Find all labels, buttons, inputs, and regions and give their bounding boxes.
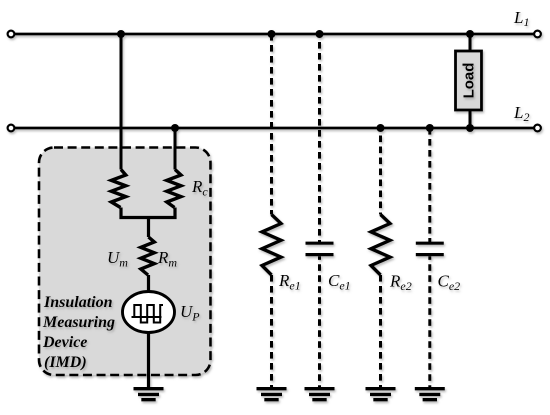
capacitor Ce1 (306, 243, 334, 254)
svg-text:Measuring: Measuring (42, 314, 115, 331)
junction node on L1 at Re1 (268, 30, 276, 38)
ground symbol of Ce1 (305, 389, 335, 400)
wire joining Rc pair bottoms (121, 208, 175, 218)
wire from Load to L2 (469, 110, 472, 128)
wire from L2 down to IMD right resistor (174, 128, 177, 170)
coupling resistor left of Rc pair (111, 170, 126, 208)
resistor Re2 (371, 215, 390, 276)
resistor Rm (141, 237, 155, 275)
pulse source UP circle (123, 292, 175, 333)
dashed wire from L1 to Ce1 (318, 34, 321, 243)
ground symbol of Re1 (257, 389, 287, 400)
terminal L2 right (534, 125, 541, 132)
svg-text:Device: Device (42, 334, 87, 351)
dashed wire from Ce1 to ground (318, 256, 321, 387)
ground symbol of Re2 (366, 389, 396, 400)
junction node on L2 at IMD tap (171, 124, 179, 132)
junction node on L2 at Load (466, 124, 474, 132)
resistor Re1 (262, 215, 281, 276)
dashed wire from L2 to Ce2 (428, 128, 431, 243)
junction node on L1 at IMD tap (117, 30, 125, 38)
dashed wire from L1 to Re1 (270, 34, 273, 215)
junction node on L1 at Load (466, 30, 474, 38)
dashed wire from Re1 to ground (270, 275, 273, 388)
IMD enclosure box (39, 148, 211, 376)
svg-text:(IMD): (IMD) (44, 354, 87, 371)
terminal L1 right (534, 31, 541, 38)
junction node on L1 at Ce1 (316, 30, 324, 38)
dashed wire from Ce2 to ground (428, 256, 431, 387)
capacitor Ce2 (416, 243, 444, 254)
load box (456, 51, 482, 110)
junction node on L2 at Ce2 (426, 124, 434, 132)
ground symbol of IMD (134, 389, 164, 400)
terminal L2 left (8, 125, 15, 132)
wire L1 (15, 33, 535, 36)
wire center tap down to Rm (147, 218, 150, 238)
wire from L1 down to IMD left resistor (120, 34, 123, 170)
terminal L1 left (8, 31, 15, 38)
wire L2 (15, 127, 535, 130)
wire from Rm to pulse source (147, 275, 150, 292)
wire from L1 to Load (469, 34, 472, 52)
junction node on L2 at Re2 (377, 124, 385, 132)
dashed wire from L2 to Re2 (379, 128, 382, 215)
pulse source waveform symbol (132, 305, 164, 323)
svg-text:Insulation: Insulation (43, 294, 113, 311)
coupling resistor right of Rc pair (167, 170, 181, 208)
dashed wire from Re2 to ground (379, 275, 382, 388)
svg-text:Load: Load (461, 63, 478, 99)
wire from pulse source to ground (147, 332, 150, 388)
ground symbol of Ce2 (415, 389, 445, 400)
